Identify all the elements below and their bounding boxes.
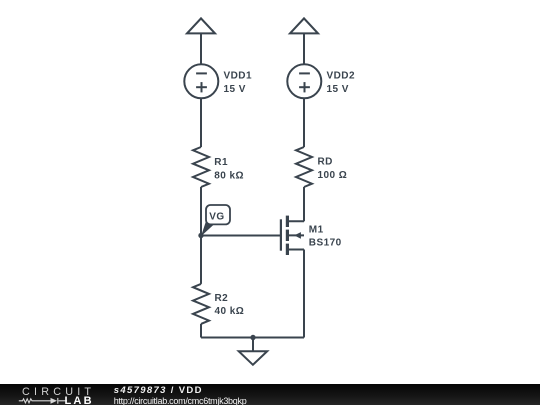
svg-text:VG: VG (209, 212, 224, 223)
svg-text:15 V: 15 V (327, 84, 349, 95)
svg-text:80 kΩ: 80 kΩ (214, 170, 244, 181)
svg-text:15 V: 15 V (224, 84, 246, 95)
svg-text:R2: R2 (215, 293, 229, 304)
svg-text:BS170: BS170 (309, 238, 342, 249)
svg-text:VDD1: VDD1 (224, 71, 252, 82)
svg-text:M1: M1 (309, 225, 324, 236)
svg-text:100 Ω: 100 Ω (318, 170, 348, 181)
svg-text:RD: RD (318, 156, 333, 167)
svg-text:VDD2: VDD2 (327, 71, 355, 82)
svg-text:R1: R1 (214, 157, 228, 168)
svg-text:40 kΩ: 40 kΩ (215, 306, 245, 317)
